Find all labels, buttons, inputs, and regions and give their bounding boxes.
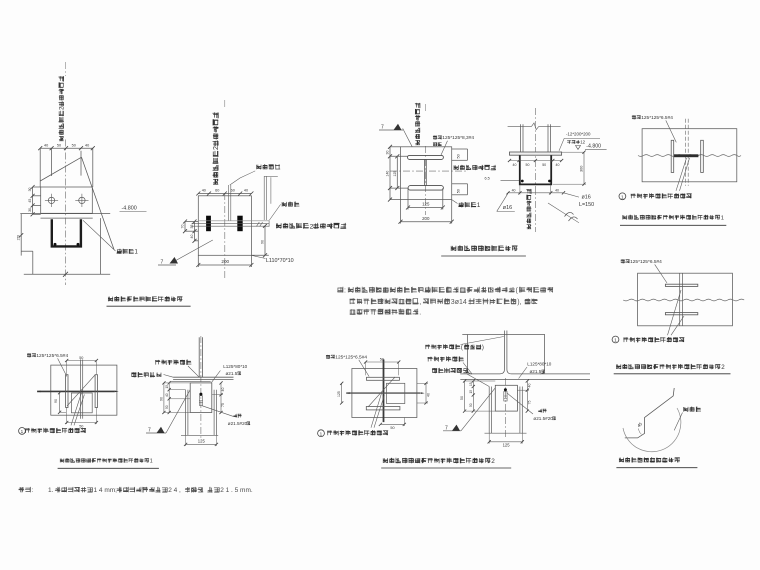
svg-text:125*125*6.5#4: 125*125*6.5#4 — [335, 355, 367, 361]
level mark -4.800 (detail A) — [122, 206, 137, 212]
svg-text:40: 40 — [85, 143, 89, 147]
detail boundary arc (detail K) — [623, 408, 681, 452]
svg-text:ø16: ø16 — [582, 194, 591, 200]
svg-text:40: 40 — [513, 163, 517, 167]
svg-text:50: 50 — [79, 356, 83, 360]
svg-text:30: 30 — [386, 151, 390, 155]
label: 6.5 weld (detail D) — [485, 177, 490, 181]
callout 1: 结构平面钢梁连接钢板 (detail F) — [612, 336, 619, 343]
svg-text:125: 125 — [198, 439, 206, 444]
svg-text:2: 2 — [310, 223, 314, 230]
svg-text:50: 50 — [457, 154, 461, 158]
dimension lines: left 15/40/50/90 (detail H) — [168, 383, 170, 413]
embedded anchor box with studs (detail D) — [520, 155, 551, 184]
svg-text:125*125*6.5#4: 125*125*6.5#4 — [630, 259, 662, 265]
svg-text:6.5: 6.5 — [485, 177, 490, 181]
svg-text:L=150: L=150 — [579, 202, 594, 208]
title: 楼梯间柱柱脚与结构平面钢梁连接详图1 — [622, 215, 723, 222]
detail H: column top / plane beam connection elevation 1 — [131, 336, 250, 446]
svg-text:200: 200 — [422, 216, 430, 221]
concrete beam outline (detail A) — [20, 214, 22, 256]
slab top lines (detail A) — [20, 213, 110, 215]
label: 楼梯梁 with leader (detail K) — [683, 407, 701, 412]
detail G: column top / plane beam connection plan 1 — [19, 353, 159, 468]
svg-text:2: 2 — [721, 364, 725, 371]
dimension line: bottom 200 (detail B) — [198, 264, 251, 266]
svg-text:40: 40 — [44, 143, 48, 147]
svg-text:300: 300 — [580, 166, 584, 172]
svg-text:15: 15 — [469, 390, 473, 394]
svg-text:45: 45 — [28, 199, 32, 203]
svg-text:2: 2 — [59, 106, 66, 110]
connection plate (detail J) — [495, 385, 517, 411]
stiffener plates (detail E) — [671, 140, 674, 172]
svg-text:50: 50 — [390, 426, 394, 430]
svg-text:125: 125 — [393, 171, 397, 177]
weld symbol 7 with flag (detail H) — [146, 432, 166, 434]
connection plate rect (detail I) — [387, 383, 405, 403]
svg-text:50: 50 — [469, 403, 473, 407]
label: ø16 L=150 with leader (detail D) — [564, 193, 580, 197]
svg-text:L125*80*10: L125*80*10 — [527, 362, 551, 367]
title: 楼梯间柱柱顶与结构平面钢梁连接详图1 — [60, 458, 153, 464]
column plate edge-on dark (detail I) — [383, 359, 385, 422]
label: 结构平面钢梁 (detail H) — [155, 360, 191, 365]
dimension line: top 40/50/50/40 (detail A) — [40, 147, 93, 149]
callout 1: 结构平面钢梁连接钢板 (detail G) — [19, 428, 26, 435]
stair beam corner chamfer polyline (detail K) — [625, 388, 674, 438]
angle L110*70*10 edge lines (detail B) — [199, 220, 269, 222]
break symbol on leader (detail D) — [548, 203, 579, 223]
label: ø16 with leader (detail D) — [497, 193, 508, 211]
title: 楼梯梁与梁底埋件连接详图 — [108, 296, 182, 301]
svg-text:40: 40 — [556, 163, 560, 167]
label: 钢板125*125*6.5 (detail E) — [632, 115, 673, 121]
embed base plate outline (detail C) — [401, 147, 452, 200]
svg-text:): ) — [482, 345, 484, 351]
svg-text:125*125*6.5#4: 125*125*6.5#4 — [641, 115, 673, 121]
embed plate studs (detail B) — [206, 216, 211, 232]
svg-text:ø21.5: ø21.5 — [226, 371, 238, 376]
svg-text::: : — [31, 487, 33, 494]
svg-text:35: 35 — [190, 225, 194, 229]
svg-text:40: 40 — [221, 388, 225, 392]
detail C: column base embed plan — [379, 103, 526, 256]
svg-text:(: ( — [461, 345, 463, 351]
svg-text:30: 30 — [28, 187, 32, 191]
svg-text:50: 50 — [79, 424, 83, 428]
weld symbol 7 with flag (detail B) — [174, 240, 213, 262]
svg-text:40: 40 — [528, 384, 532, 388]
dimension line: left 125 (detail I) — [341, 383, 343, 403]
column web double line (detail G) — [79, 359, 81, 418]
level mark -4.800 (detail D) — [576, 146, 581, 150]
svg-text:60: 60 — [215, 189, 219, 193]
detail K: stair beam inner corner chamfer detail — [616, 388, 701, 468]
note: middle note text — [337, 287, 553, 317]
plane beam elevation with web opening (detail J) — [462, 334, 545, 336]
dimension line: right 90 (detail B) — [264, 226, 266, 256]
dimension lines: right 40/75 (detail J) — [526, 381, 528, 411]
title: 楼梯间柱柱顶与结构平面钢梁连接详图2 — [383, 458, 495, 465]
svg-text:-4.800: -4.800 — [586, 144, 601, 150]
centerline: column centerline (detail D) — [534, 108, 536, 188]
detail E: column base / plane beam connection plan 1 — [619, 115, 741, 225]
embedded anchor box with studs (detail A) — [52, 219, 81, 246]
column H-section plan (detail C) — [408, 155, 444, 159]
column shaft (detail D) — [520, 124, 522, 152]
beam outline rect (detail F) — [638, 273, 733, 326]
svg-text:2: 2 — [213, 146, 220, 150]
svg-text:125*125*6.5#4: 125*125*6.5#4 — [36, 353, 68, 359]
svg-text:90: 90 — [260, 240, 264, 244]
svg-text:140: 140 — [386, 171, 390, 177]
dimension line: left 30/45/30 (detail A) — [32, 187, 34, 213]
dimension line: bottom 40/40 (detail D) — [508, 192, 564, 194]
title: 楼梯间柱柱脚与结构平面钢梁连接详图2 — [616, 364, 725, 371]
label: 楼梯间柱中心线 rotated (detail D) — [526, 189, 531, 229]
connection region rect (detail G) — [51, 365, 117, 415]
dimension line: left 35/40/70 (detail B) — [194, 222, 196, 241]
svg-text:7: 7 — [161, 260, 164, 266]
svg-text:2 1 . 5 mm.: 2 1 . 5 mm. — [220, 487, 253, 494]
detail J: column top / plane beam connection elevation 2 — [425, 331, 590, 448]
bolt (detail J) — [504, 388, 507, 391]
svg-text:ø16: ø16 — [503, 205, 512, 211]
detail D: column base embed elevation — [485, 108, 607, 232]
callout 1: 结构平面钢梁连接钢板 (detail I) — [318, 430, 325, 437]
svg-text:40: 40 — [165, 393, 169, 397]
title: 楼梯梁内四角倒角详图 — [619, 457, 680, 462]
centerline: column centerline vertical (detail C) — [424, 104, 426, 112]
dimension lines: right 40/75 (detail H) — [220, 383, 222, 413]
svg-text:70: 70 — [180, 225, 184, 229]
svg-text:ø21.5: ø21.5 — [530, 369, 542, 374]
label: 螺栓 ø21.5 (detail H) — [233, 414, 241, 418]
svg-text:),: ), — [517, 299, 521, 306]
stair tread lines + label 楼梯踏步 (detail B) — [227, 185, 229, 221]
dimension line: top 50 (detail I) — [366, 361, 399, 363]
svg-text:50: 50 — [57, 143, 61, 147]
column H-section plan (detail F) — [665, 284, 697, 286]
svg-text:50: 50 — [457, 189, 461, 193]
svg-text:.: . — [419, 309, 421, 316]
svg-text:40: 40 — [512, 189, 516, 193]
stair beam section outline (detail B) — [198, 196, 251, 256]
stair column shaft (detail H) — [185, 390, 187, 436]
plane beam line with arrows (detail I) — [346, 392, 420, 394]
weld symbol 7 with flag (detail J) — [443, 430, 461, 432]
callout 1: 结构平面钢梁连接钢板 (detail E) — [619, 193, 626, 200]
dimension line: bottom 50 (detail G) — [67, 422, 97, 424]
svg-text:50: 50 — [460, 396, 464, 400]
centerline: embed 2 locating centerline (detail B) — [224, 100, 226, 109]
svg-text:75: 75 — [528, 401, 532, 405]
beam web wavy line (detail F) — [623, 299, 744, 301]
svg-text:7: 7 — [445, 425, 448, 431]
stiffener plates horizontal (detail I) — [367, 377, 400, 380]
svg-text:40: 40 — [244, 189, 248, 193]
svg-text:7: 7 — [381, 125, 384, 131]
leader diagonal (detail I) — [368, 377, 395, 407]
svg-text:50: 50 — [165, 405, 169, 409]
detail F: column base / plane beam connection plan 2 — [612, 259, 744, 374]
svg-text:ø21.5#20: ø21.5#20 — [228, 421, 248, 426]
dimension line: top 40/60/60/40 (detail B) — [198, 193, 251, 195]
dimension line: right 40 (detail I) — [425, 383, 427, 403]
svg-text:200: 200 — [221, 259, 229, 264]
svg-text:150: 150 — [17, 235, 21, 241]
connection region rect (detail I) — [352, 369, 417, 418]
detail B: stair beam section at embed plate — [158, 100, 346, 280]
plane beam plate edge-on with arrows (detail G) — [37, 390, 114, 392]
svg-text:15: 15 — [165, 385, 169, 389]
svg-text::: : — [344, 287, 346, 294]
svg-text:50: 50 — [526, 163, 530, 167]
svg-text:ø21.5#20: ø21.5#20 — [533, 416, 553, 421]
label: L110*70*10 with leader (detail B) — [251, 255, 265, 258]
connection plate (detail H) — [190, 383, 212, 413]
dimension line: right 300 (detail D) — [583, 152, 585, 184]
label: 钢板125*125*6.5 (detail F) — [621, 259, 662, 265]
svg-text:1 4 mm;: 1 4 mm; — [94, 487, 118, 494]
dimension line: bottom 125 (detail J) — [489, 441, 522, 443]
svg-text:1: 1 — [150, 458, 153, 464]
anchor bolts (detail A) — [48, 197, 54, 203]
break line at column top (detail D) — [508, 125, 532, 127]
svg-text:50: 50 — [542, 163, 546, 167]
dimension line: left 90 (detail G) — [59, 393, 61, 413]
svg-text:2: 2 — [491, 458, 495, 465]
svg-text:50: 50 — [380, 357, 384, 361]
svg-text:1: 1 — [21, 429, 24, 434]
svg-text:50: 50 — [72, 143, 76, 147]
dimension line: bottom 50 (detail I) — [380, 423, 404, 425]
svg-text:125: 125 — [503, 442, 511, 447]
connection plate rect (detail G) — [71, 393, 92, 413]
dimension line: top 50 (detail G) — [67, 360, 97, 362]
plane beam stub (detail H) — [198, 337, 200, 377]
svg-text:40: 40 — [190, 235, 194, 239]
dimension line: bottom 125 (detail H) — [186, 443, 217, 445]
dimension brackets: right 50/50 (detail C) — [452, 148, 468, 150]
svg-text:30: 30 — [28, 208, 32, 212]
beam flange lines (detail H) — [173, 376, 233, 378]
beam web wavy line (detail E) — [638, 155, 741, 157]
label: 螺栓 ø21.5 (detail J) — [538, 409, 546, 413]
svg-text:125: 125 — [422, 202, 430, 207]
centerline: embed 2 locating centerline (detail A) — [65, 62, 67, 76]
bolt (detail H) — [199, 393, 202, 396]
label: 钢板125*125*8 满焊 (detail C) — [433, 135, 474, 141]
leader: sloped hatch lines (detail A) — [40, 157, 81, 181]
label: 楼梯间柱中心线 (detail C) — [454, 165, 496, 170]
svg-text:-4.800: -4.800 — [122, 206, 137, 212]
dimension lines: left (detail C) — [396, 156, 398, 188]
label: 预埋件1 with leader (detail C) — [452, 200, 458, 204]
note: bottom note text — [19, 487, 253, 494]
svg-text:90: 90 — [160, 397, 164, 401]
label: 钢梁底标高 (detail H) — [131, 372, 161, 377]
label: L125*80*10 ø21.5孔 (detail H) — [223, 364, 247, 369]
label: 预埋件1 with leader (detail A) — [83, 220, 116, 251]
dimension lines: left 15/15/50/50 (detail J) — [472, 381, 474, 411]
dimension lines: bottom 125/200 (detail C) — [408, 207, 443, 209]
svg-text:L110*70*10: L110*70*10 — [266, 258, 294, 264]
svg-text:1: 1 — [477, 202, 481, 209]
svg-text:1.: 1. — [48, 487, 54, 494]
svg-text:40: 40 — [427, 393, 431, 397]
embed plate 预埋件1 face (detail A) — [41, 187, 93, 213]
svg-text:1: 1 — [320, 431, 323, 436]
label: 楼梯间埋件2定位中心线 (rotated, detail A) — [59, 76, 66, 141]
svg-text:L125*80*10: L125*80*10 — [223, 364, 247, 369]
svg-text:1: 1 — [621, 194, 624, 199]
dimension line: 40/50/50/40 (detail D) — [510, 160, 562, 162]
beam outline rect (detail E) — [642, 129, 737, 182]
svg-text:75: 75 — [221, 403, 225, 407]
base plate (detail D) — [510, 152, 562, 155]
centerline vertical (detail H) — [200, 336, 202, 440]
title: 楼梯间柱柱脚埋件详图 — [451, 245, 518, 251]
labels: 结构平面钢梁(加劲肋)/结构平面钢梁/钢梁腹板开孔 (detail J) — [425, 344, 484, 351]
centerline: column centerline horizontal (detail C) — [390, 170, 468, 172]
svg-text:1: 1 — [614, 338, 617, 343]
svg-text:60: 60 — [231, 189, 235, 193]
leader diagonal (detail G) — [67, 375, 95, 406]
svg-text:90: 90 — [54, 399, 58, 403]
svg-text:12: 12 — [580, 140, 585, 145]
svg-text:40: 40 — [202, 189, 206, 193]
weld symbol 7 with flag (detail C) — [379, 129, 403, 131]
svg-text:2 4 ,: 2 4 , — [168, 487, 181, 494]
centerline: dashed column line (detail E) — [685, 119, 687, 186]
svg-text:7: 7 — [148, 428, 151, 434]
svg-text:3ø14: 3ø14 — [451, 299, 467, 306]
stair column shaft (detail J) — [488, 387, 490, 434]
label: 钢板125*125*6.5 (detail I) — [326, 355, 367, 361]
label: -12*200*200 锚板 (detail D) — [566, 132, 591, 137]
stiffener plates (detail G) — [66, 375, 68, 408]
svg-text:125*125*8,3#4: 125*125*8,3#4 — [442, 135, 474, 141]
label: L125*80*10 ø21.5孔 (detail J) — [527, 362, 551, 367]
svg-text:-12*200*200: -12*200*200 — [566, 132, 591, 137]
detail A: beam-to-embed connection elevation — [17, 62, 191, 306]
detail I: column top / plane beam connection plan 2 — [318, 355, 512, 469]
connection plate edge-on (detail E) — [674, 154, 699, 157]
label: 楼梯梁 with leader (detail B) — [269, 204, 280, 220]
label: 45 chamfer (detail K) — [636, 421, 643, 428]
svg-text:125: 125 — [337, 391, 341, 397]
centerline vertical (detail J) — [505, 378, 507, 437]
svg-text:15: 15 — [469, 382, 473, 386]
beam web double line (detail F) — [679, 273, 681, 326]
svg-text:,: , — [419, 299, 421, 306]
label: 钢板125*125*6.5 (detail G) — [27, 353, 68, 359]
svg-text:1: 1 — [721, 215, 724, 221]
svg-text:40: 40 — [555, 189, 559, 193]
